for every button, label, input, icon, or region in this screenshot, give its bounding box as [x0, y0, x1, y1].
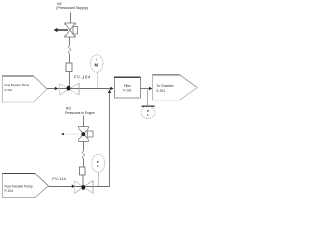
svg-text:Filter: Filter [124, 84, 132, 88]
svg-text:1: 1 [96, 58, 98, 62]
svg-text:Fuel Booster Pump: Fuel Booster Pump [5, 83, 30, 87]
svg-text:L: L [97, 164, 99, 168]
svg-text:P-101: P-101 [5, 88, 13, 92]
svg-text:Pressurant to Engine: Pressurant to Engine [65, 111, 95, 115]
svg-text:Fuel Transfer Pump: Fuel Transfer Pump [5, 185, 33, 189]
svg-text:To Chamber: To Chamber [157, 84, 175, 88]
svg-text:E-201: E-201 [157, 89, 166, 93]
svg-text:FV-104: FV-104 [74, 75, 91, 80]
svg-text:L: L [147, 113, 149, 117]
svg-text:FV-114: FV-114 [52, 176, 66, 181]
svg-text:P-104: P-104 [5, 189, 14, 193]
svg-text:F-101: F-101 [123, 89, 132, 93]
svg-text:(Pressurant Supply): (Pressurant Supply) [56, 6, 88, 10]
svg-text:RO: RO [66, 106, 71, 110]
svg-text:M: M [95, 63, 99, 68]
